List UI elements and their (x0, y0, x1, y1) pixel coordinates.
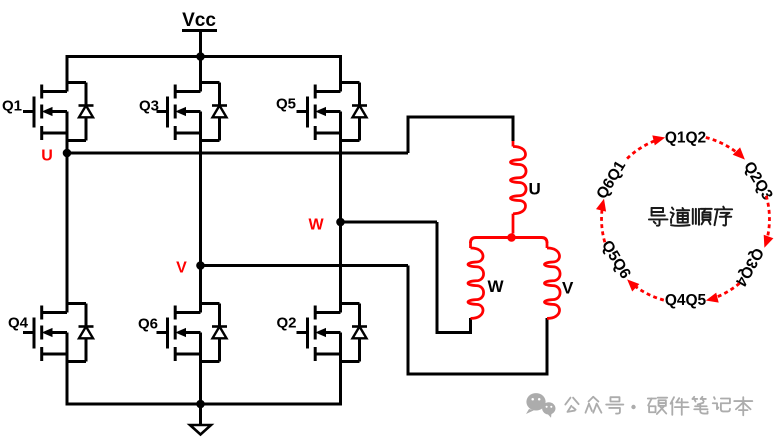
transistor Q5 (297, 85, 341, 141)
body diode of Q6 (201, 304, 228, 362)
node label 导通顺序 (conduction order) center (649, 208, 667, 226)
wire U rail (67, 152, 408, 155)
wire V rail (201, 264, 409, 267)
arrow arc segment 1 (706, 138, 741, 156)
arrow arc segment 3 (712, 283, 740, 299)
svg-text:V: V (562, 279, 574, 298)
wire Q4 source (66, 354, 69, 404)
svg-text:U: U (41, 148, 53, 165)
svg-text:W: W (488, 277, 505, 296)
body diode of Q2 (341, 304, 368, 362)
wire red star connection (471, 238, 548, 244)
transistor Q6 (157, 306, 201, 362)
arrow arc segment 5 (602, 204, 605, 242)
transistor Q1 (23, 85, 67, 141)
svg-text:Q4: Q4 (8, 315, 29, 332)
wire Q2 source (339, 354, 342, 404)
transistor Q3 (157, 85, 201, 141)
watermark wechat icon (526, 393, 545, 410)
inductor winding V (546, 242, 549, 248)
wire W rail (341, 221, 438, 224)
wire Q3 source to Q6 drain (199, 133, 202, 313)
junction ground node (196, 400, 205, 409)
arrow arc segment 6 (627, 139, 659, 159)
wire V to winding (408, 266, 547, 375)
svg-text:W: W (308, 217, 324, 234)
svg-text:Q1: Q1 (2, 98, 22, 115)
junction Vcc node (196, 52, 205, 61)
transistor Q2 (297, 306, 341, 362)
svg-text:Q1Q2: Q1Q2 (665, 130, 706, 147)
svg-text:V: V (176, 260, 187, 277)
wire Q1 drain (66, 57, 69, 92)
wire top Vcc rail (66, 55, 343, 58)
Vcc bar (182, 29, 217, 32)
arrow arc segment 2 (766, 196, 769, 242)
junction star point (507, 233, 516, 242)
body diode of Q5 (341, 83, 368, 141)
body diode of Q4 (67, 304, 94, 362)
svg-text:Q6: Q6 (138, 316, 158, 333)
svg-text:Vcc: Vcc (182, 10, 216, 31)
body diode of Q1 (67, 83, 94, 141)
svg-text:Q2: Q2 (277, 315, 297, 332)
svg-text:Q5: Q5 (276, 96, 296, 113)
body diode of Q3 (201, 83, 228, 141)
arrow arc segment 4 (632, 283, 664, 300)
wire W to winding (437, 222, 471, 333)
wire Q3 drain (199, 57, 202, 92)
svg-text:Q4Q5: Q4Q5 (665, 292, 707, 309)
watermark text 公众号·硬件笔记本 (565, 398, 578, 412)
transistor Q4 (23, 306, 67, 362)
wire ground rail (66, 403, 343, 406)
wire Vcc stem (199, 31, 202, 57)
svg-text:U: U (529, 180, 541, 199)
wire Q6 source (199, 354, 202, 404)
wire Q1 source to Q4 drain (66, 133, 69, 313)
svg-text:Q3: Q3 (139, 98, 159, 115)
ground (199, 404, 202, 424)
wire Q5 source to Q2 drain (339, 133, 342, 313)
inductor winding U (512, 141, 515, 147)
inductor winding W (469, 242, 472, 248)
wire Q5 drain (339, 57, 342, 92)
wire U to winding (408, 117, 513, 153)
